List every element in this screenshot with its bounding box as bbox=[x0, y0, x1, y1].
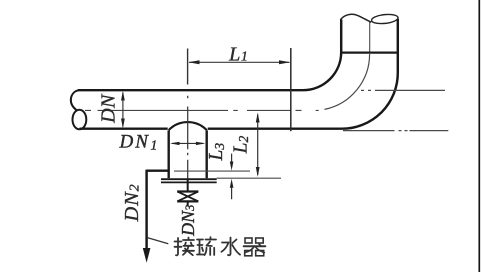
L1 extension line left bbox=[187, 49, 189, 85]
riser top break hump bbox=[340, 14, 371, 22]
riser weld joint line bbox=[340, 51, 399, 53]
glyph qi bbox=[244, 238, 266, 256]
glyph shu bbox=[197, 237, 216, 255]
branch centerline dash-dot bbox=[187, 96, 189, 180]
L3 dimension arrows bbox=[231, 154, 233, 200]
L1 dimension line bbox=[189, 61, 290, 63]
main pipe centerline bbox=[85, 109, 319, 111]
drain flow arrowhead bbox=[143, 248, 151, 263]
elbow centerline arc dash-dot bbox=[325, 54, 370, 109]
DN diameter dimension double arrow bbox=[122, 93, 124, 127]
main pipe DN top wall with elbow inner wall and riser left wall bbox=[78, 20, 341, 91]
branch end extension line bbox=[174, 170, 250, 172]
pipe left break S-curve bbox=[71, 90, 78, 110]
svg-text:DN2: DN2 bbox=[121, 184, 143, 223]
L2 dimension double arrow bbox=[257, 115, 259, 175]
svg-text:L3: L3 bbox=[206, 143, 227, 162]
svg-text:DN: DN bbox=[98, 93, 120, 124]
L1 extension line right bbox=[290, 48, 292, 131]
phantom continuation line lower bbox=[343, 130, 448, 132]
riser top break bore ellipse bbox=[371, 13, 398, 25]
svg-text:DN3: DN3 bbox=[178, 205, 198, 237]
phantom continuation line upper bbox=[361, 89, 445, 91]
svg-text:L2: L2 bbox=[230, 136, 251, 155]
drain pipe DN2 horizontal run bbox=[147, 169, 170, 171]
flange upper line bbox=[161, 178, 217, 180]
valve stem bbox=[187, 180, 189, 192]
L1 arrow left bbox=[188, 60, 199, 64]
note text jie shu shui qi hand drawn glyphs bbox=[175, 237, 266, 256]
glyph shui bbox=[222, 238, 241, 256]
DN1 bore dimension line bbox=[172, 142, 204, 144]
riser centerline bbox=[369, 21, 371, 52]
glyph jie bbox=[175, 238, 195, 256]
branch DN1 left wall bbox=[167, 130, 169, 178]
DN1 dimension arrow left bbox=[170, 142, 180, 145]
branch DN1 right wall bbox=[205, 130, 207, 178]
svg-text:DN1: DN1 bbox=[119, 131, 160, 153]
valve bottom stub bbox=[187, 202, 189, 207]
L1 arrow right bbox=[279, 60, 290, 64]
DN1 dimension arrow right bbox=[196, 142, 206, 145]
drain pipe DN2 vertical run bbox=[145, 170, 147, 249]
leader line to steam trap note bbox=[148, 238, 169, 244]
flange face extension line bbox=[217, 177, 281, 179]
main pipe DN bottom wall right segment with elbow outer wall and riser right wall bbox=[208, 19, 398, 129]
svg-text:L1: L1 bbox=[228, 43, 248, 65]
main pipe DN bottom wall left segment bbox=[80, 127, 168, 129]
valve DN3 body bbox=[177, 192, 198, 202]
page border right edge bbox=[478, 0, 480, 272]
branch DN1 saddle dome bbox=[169, 122, 207, 130]
pipe left break bore ellipse bbox=[73, 110, 87, 130]
flange lower line bbox=[161, 181, 217, 183]
